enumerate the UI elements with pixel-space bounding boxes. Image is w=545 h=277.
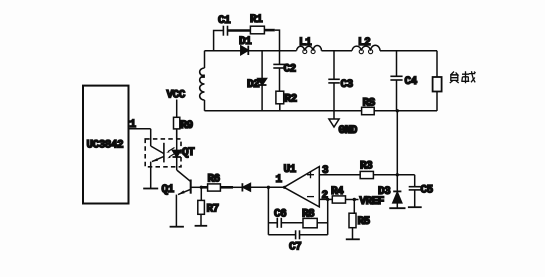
diode D2 (zener) bbox=[247, 51, 267, 111]
wire UC3842 pin1 to opto bbox=[129, 128, 151, 130]
svg-text:R7: R7 bbox=[207, 204, 219, 216]
label QT bbox=[182, 147, 195, 159]
IC UC3842 bbox=[83, 86, 137, 204]
svg-text:R1: R1 bbox=[250, 14, 263, 26]
diode D4 (unlabelled, to Q1 base) bbox=[220, 183, 250, 191]
wire feedback right vertical bbox=[327, 199, 329, 234]
svg-text:C3: C3 bbox=[341, 79, 354, 91]
capacitor C5 bbox=[408, 175, 434, 207]
transistor Q1 bbox=[162, 170, 191, 227]
transformer winding T1 secondary bbox=[200, 51, 205, 111]
resistor R6 bbox=[201, 174, 220, 192]
diode D3 bbox=[378, 175, 406, 208]
resistor R8 bbox=[302, 209, 328, 228]
svg-text:L1: L1 bbox=[299, 37, 312, 49]
svg-text:R4: R4 bbox=[331, 186, 344, 198]
wire top rail L2 to load bbox=[380, 50, 437, 52]
svg-text:R9: R9 bbox=[181, 120, 193, 132]
inductor L2 bbox=[352, 37, 380, 54]
svg-text:C2: C2 bbox=[284, 64, 296, 76]
svg-text:C1: C1 bbox=[218, 15, 231, 27]
svg-text:R8: R8 bbox=[302, 209, 315, 221]
resistor RS bbox=[362, 98, 437, 115]
op-amp U1 bbox=[276, 164, 330, 207]
svg-text:C6: C6 bbox=[274, 209, 286, 221]
capacitor C3 bbox=[328, 51, 353, 119]
wire pin2 line bbox=[319, 198, 332, 200]
svg-text:QT: QT bbox=[182, 147, 195, 159]
svg-text:R2: R2 bbox=[285, 94, 297, 106]
junction node Q1 base bbox=[200, 186, 203, 189]
diode D1 bbox=[239, 36, 252, 55]
junction node pin2 tap bbox=[326, 198, 329, 201]
svg-text:D2: D2 bbox=[247, 79, 259, 91]
junction node R3/D3 bbox=[396, 173, 399, 176]
svg-text:RS: RS bbox=[363, 98, 376, 110]
svg-text:C4: C4 bbox=[405, 76, 418, 88]
resistor R2 bbox=[276, 91, 297, 111]
wire top rail D1 to L1 bbox=[248, 50, 296, 52]
junction node feedback tap bbox=[267, 186, 270, 189]
svg-text:UC3842: UC3842 bbox=[87, 140, 124, 152]
svg-text:C7: C7 bbox=[289, 242, 301, 254]
inductor L1 bbox=[297, 37, 322, 54]
resistor R5 bbox=[346, 200, 371, 240]
ground GND symbol bbox=[329, 119, 358, 137]
svg-text:U1: U1 bbox=[284, 164, 297, 176]
wire sense line vertical bbox=[396, 111, 398, 175]
wire pin3 line bbox=[319, 174, 360, 176]
svg-text:Q1: Q1 bbox=[162, 184, 175, 196]
wire base node to Q1 bbox=[191, 186, 202, 188]
resistor R4 bbox=[331, 186, 359, 203]
svg-text:VREF: VREF bbox=[360, 196, 384, 208]
svg-text:D1: D1 bbox=[239, 36, 252, 48]
svg-text:L2: L2 bbox=[358, 37, 370, 49]
svg-text:1: 1 bbox=[276, 174, 283, 186]
node VREF bbox=[353, 196, 384, 208]
resistor R3 bbox=[360, 161, 415, 179]
optocoupler light arrows bbox=[166, 148, 175, 159]
resistor R9 bbox=[174, 100, 193, 139]
wire bottom rail left bbox=[205, 110, 362, 112]
capacitor C7 bbox=[268, 230, 327, 253]
wire top rail left segment bbox=[205, 50, 241, 52]
capacitor C4 bbox=[390, 51, 417, 111]
capacitor C6 bbox=[268, 187, 303, 235]
power VCC label bbox=[167, 90, 186, 102]
optocoupler QT dashed box bbox=[145, 139, 181, 167]
load label 负载 bbox=[450, 71, 476, 83]
capacitor C2 bbox=[273, 51, 295, 91]
wire pin1 output line bbox=[250, 186, 286, 189]
wire top rail L1 to L2 bbox=[322, 50, 353, 52]
svg-text:R5: R5 bbox=[358, 216, 371, 228]
optocoupler LED bbox=[173, 129, 181, 170]
load resistor (负载) bbox=[433, 51, 442, 111]
svg-text:R3: R3 bbox=[360, 161, 373, 173]
capacitor C1 bbox=[214, 15, 251, 51]
resistor R7 bbox=[195, 187, 219, 226]
optocoupler phototransistor bbox=[143, 129, 164, 189]
svg-text:R6: R6 bbox=[208, 174, 220, 186]
svg-text:C5: C5 bbox=[421, 185, 434, 197]
svg-text:GND: GND bbox=[339, 125, 358, 137]
junction node at sense point bbox=[396, 109, 399, 112]
resistor R1 bbox=[250, 14, 280, 51]
